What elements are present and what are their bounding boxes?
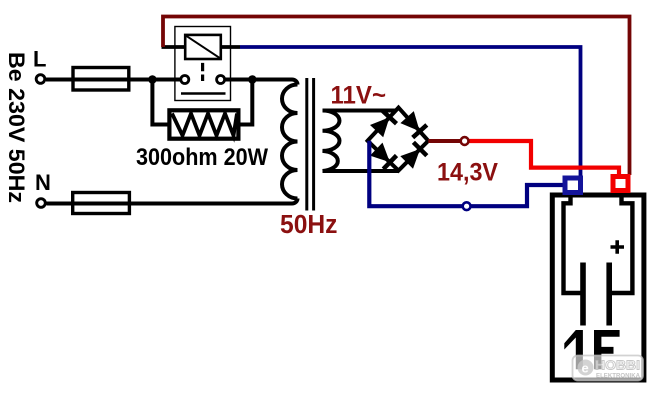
wire secondary bottom lead [323,169,399,173]
wire dark red top (relay coil to + terminal) [163,17,630,176]
wire dark red plus stub [428,139,461,143]
wire navy minus output [369,141,563,206]
relay K1 outer box [175,27,231,101]
terminal plus (red square) [613,177,628,191]
junction dot B [248,75,257,84]
diode D1 [370,117,390,137]
resistor R1 body [169,110,238,138]
transformer T1 primary winding [282,85,298,199]
svg-text:14,3V: 14,3V [437,159,498,187]
svg-text:L: L [33,47,46,72]
bridge rectifier frame [368,108,429,171]
wire from relay contact to transformer primary [225,80,298,85]
relay coil [185,35,221,59]
plus sign [611,240,625,253]
relay coil diagonal [186,36,220,59]
wire L rail [46,78,181,82]
relay armature bar [181,92,226,95]
wire secondary top lead [323,109,397,113]
capacitor inner lead right [612,196,633,294]
diode D3 [370,143,390,163]
wire bright red plus output [468,141,619,175]
diode D4 [400,149,420,169]
junction dot A [148,75,157,84]
terminal minus (blue square) [565,178,581,193]
capacitor C1 outer case [552,195,644,380]
resistor R1 zigzag [172,114,237,136]
capacitor inner lead left [564,196,581,294]
wire dark blue (relay coil to - terminal) [240,47,581,176]
resistor R1 lead left [152,80,169,125]
svg-text:300ohm 20W: 300ohm 20W [136,144,268,171]
svg-text:11V~: 11V~ [331,82,387,110]
resistor R1 lead right [238,80,252,125]
connector minus (navy ring) [463,202,471,210]
diode D2 [400,111,419,131]
svg-text:50Hz: 50Hz [280,211,338,239]
value label 1F [564,330,583,369]
terminal L [36,75,45,84]
wire N rail [47,199,298,204]
watermark logo [573,356,644,381]
relay contact right [217,76,225,84]
transformer T1 core [305,78,308,211]
relay contact left [181,76,189,84]
relay coil lead right (black stub) [221,45,240,49]
capacitor plate right [606,263,612,326]
svg-text:N: N [35,170,51,195]
fuse F2 (N) [73,193,130,214]
terminal N [37,199,46,208]
relay coil lead left (black stub) [162,45,186,49]
relay actuator dashed link [201,63,204,81]
svg-text:e: e [582,361,589,376]
svg-text:ELEKTRONIKA: ELEKTRONIKA [596,373,640,380]
connector plus (red ring) [461,137,469,145]
fuse F1 (L) [73,68,129,91]
capacitor plate left [580,263,586,326]
svg-text:Be 230V 50Hz: Be 230V 50Hz [4,52,29,203]
svg-text:HOBBI: HOBBI [595,359,640,373]
transformer T1 secondary winding [323,111,340,172]
